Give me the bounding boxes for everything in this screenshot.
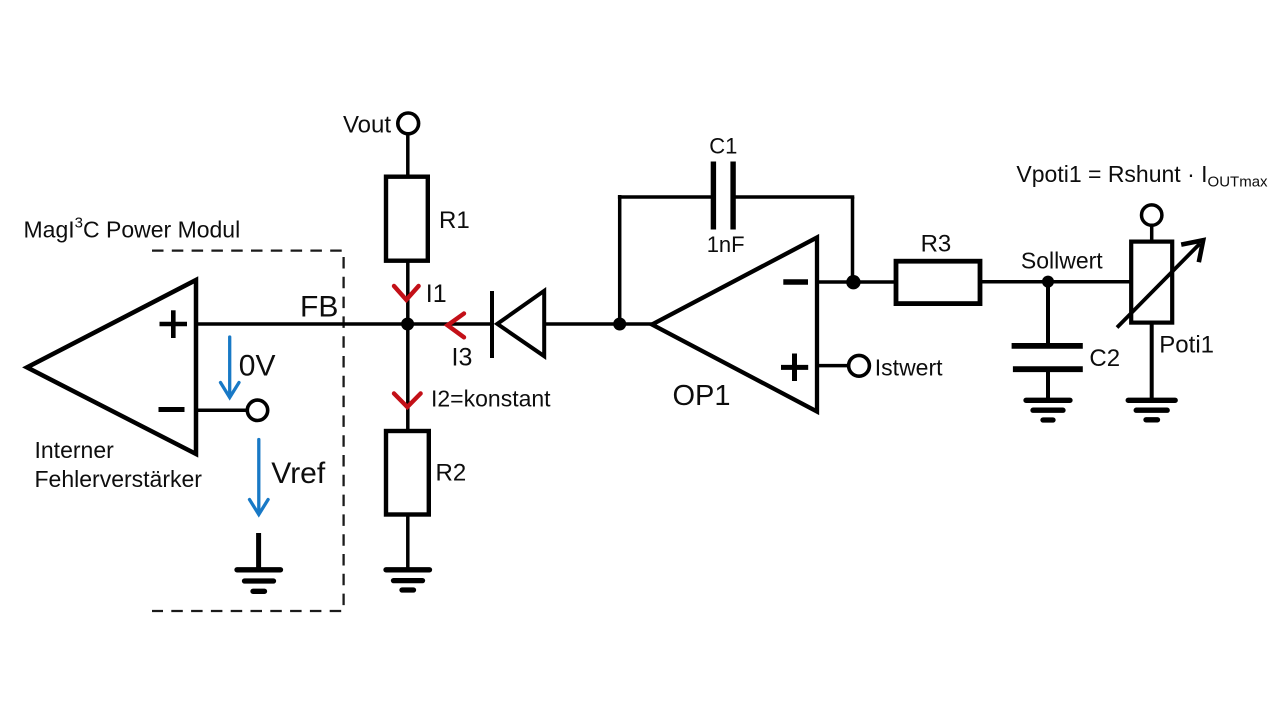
- node Sollwert junction dot: [1042, 276, 1054, 288]
- wire FB from U1 to diode: [196, 322, 490, 326]
- ground (C2): [1026, 400, 1070, 420]
- dashed module boundary box: [152, 251, 344, 611]
- minus sign of U1: [159, 407, 185, 412]
- wire OP1 plus input: [817, 364, 849, 368]
- blue arrow 0V: [221, 337, 240, 398]
- svg-text:I1: I1: [426, 280, 447, 308]
- svg-text:R2: R2: [436, 460, 467, 487]
- terminal circle Istwert: [849, 355, 870, 376]
- svg-text:C2: C2: [1089, 345, 1120, 372]
- junction dot at OP1 output: [613, 318, 626, 331]
- ground (Vref): [237, 570, 281, 592]
- potentiometer Poti1 arrow: [1117, 240, 1203, 327]
- wire Poti1 top: [1150, 226, 1154, 242]
- wire feedback top left: [618, 195, 713, 199]
- wire Poti1 to ground: [1150, 323, 1154, 401]
- wire Vout to R1: [406, 134, 410, 177]
- ground (R2): [386, 570, 430, 590]
- svg-text:1nF: 1nF: [707, 232, 745, 257]
- wire C2 to ground: [1046, 372, 1050, 400]
- svg-text:0V: 0V: [239, 350, 276, 383]
- wire to ground (Vref): [256, 533, 261, 570]
- svg-text:I3: I3: [452, 344, 473, 372]
- svg-text:OP1: OP1: [673, 380, 731, 412]
- wire diode to OP1 output: [544, 322, 655, 326]
- svg-text:I2=konstant: I2=konstant: [431, 386, 551, 412]
- wire OP1 minus input to R3: [817, 280, 896, 284]
- svg-text:Poti1: Poti1: [1159, 332, 1214, 359]
- red arrow I1: [394, 286, 419, 300]
- capacitor C1 plates: [713, 162, 733, 230]
- svg-text:R3: R3: [921, 231, 952, 258]
- svg-text:C1: C1: [709, 133, 737, 158]
- svg-text:R1: R1: [439, 207, 470, 234]
- terminal circle Vref node: [247, 400, 267, 420]
- svg-text:Interner: Interner: [35, 437, 115, 463]
- wire Sollwert to C2: [1046, 282, 1050, 344]
- ground (Poti1): [1128, 400, 1175, 420]
- minus sign of OP1: [783, 279, 808, 285]
- svg-text:Sollwert: Sollwert: [1021, 248, 1103, 274]
- diode D1 triangle: [497, 291, 544, 356]
- wire R3 to Poti1: [980, 280, 1131, 284]
- resistor R2: [386, 431, 429, 515]
- wire feedback top right: [733, 195, 854, 199]
- svg-text:FB: FB: [300, 291, 338, 324]
- svg-text:Fehlerverstärker: Fehlerverstärker: [35, 466, 203, 492]
- wire feedback right vertical: [851, 197, 855, 282]
- op-amp U1 Interner Fehlerverstaerker (points left): [27, 280, 196, 454]
- red arrow I2: [394, 394, 421, 408]
- wire R2 to ground: [406, 514, 410, 570]
- svg-text:Vout: Vout: [343, 112, 391, 139]
- wire node FB to R2: [406, 324, 410, 431]
- potentiometer Poti1 body: [1131, 242, 1172, 323]
- wire U1 minus input: [196, 409, 247, 413]
- diode D1 cathode bar: [490, 291, 494, 358]
- plus sign of OP1: [781, 354, 808, 382]
- terminal circle Vout: [398, 113, 419, 134]
- node FB junction dot: [401, 318, 414, 331]
- svg-text:MagI3C Power Modul: MagI3C Power Modul: [24, 215, 241, 243]
- wire R1 to node FB: [406, 261, 410, 324]
- resistor R1: [386, 177, 428, 261]
- svg-text:Istwert: Istwert: [875, 355, 943, 381]
- red arrow I3: [448, 314, 465, 338]
- terminal circle Poti1 top: [1142, 205, 1162, 225]
- capacitor C2 plates: [1012, 346, 1083, 369]
- op-amp OP1 (points left): [652, 238, 817, 412]
- plus sign of U1: [160, 310, 188, 338]
- junction dot minus input: [846, 275, 860, 289]
- svg-text:Vref: Vref: [271, 457, 326, 490]
- resistor R3: [896, 261, 980, 303]
- blue arrow Vref: [250, 440, 269, 515]
- wire feedback left vertical: [618, 195, 622, 324]
